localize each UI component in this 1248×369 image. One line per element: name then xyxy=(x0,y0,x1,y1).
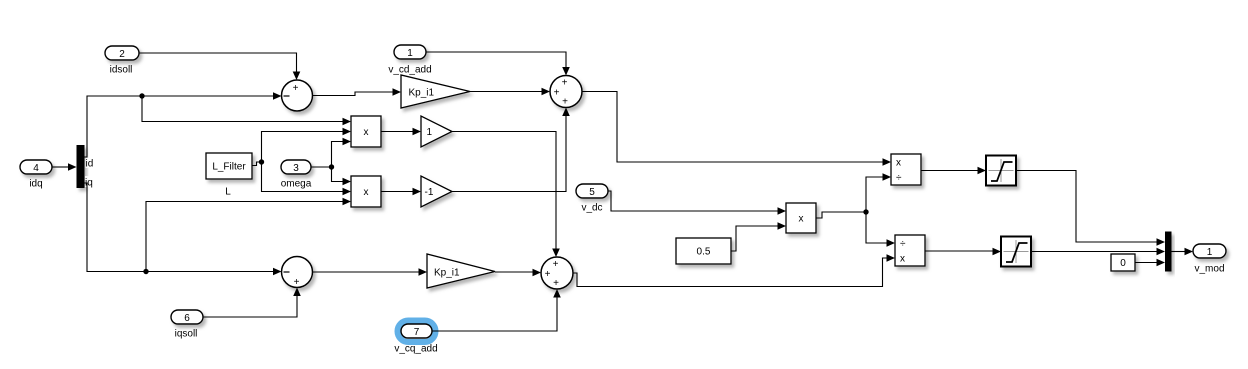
svg-text:omega: omega xyxy=(281,179,312,190)
wire port7 to S4 bottom xyxy=(432,289,561,331)
svg-text:L_Filter: L_Filter xyxy=(212,162,246,173)
svg-text:+: + xyxy=(545,269,551,280)
wire SAT1 to mux input1 xyxy=(1016,171,1165,246)
divide MD1 (x over divide) xyxy=(891,154,921,185)
wire MD2 to SAT2 xyxy=(925,248,1001,256)
svg-text:1: 1 xyxy=(427,127,433,138)
wire port4 to demux xyxy=(52,163,77,171)
svg-text:idsoll: idsoll xyxy=(110,65,133,76)
product X3 (v_dc*0.5) xyxy=(786,203,816,233)
product X2 (omega*L*iq) xyxy=(351,176,381,207)
junction X3 xyxy=(863,209,868,214)
svg-text:6: 6 xyxy=(184,313,190,324)
wire const 0 to mux input3 xyxy=(1135,259,1165,267)
wire omega branch down to X2 xyxy=(332,167,352,185)
wire port6 to S3 bottom xyxy=(203,288,301,318)
wire S1 to G1 xyxy=(313,88,402,96)
svg-text:v_dc: v_dc xyxy=(581,203,602,214)
wire id signal xyxy=(85,92,282,157)
wire omega branch up to X1 xyxy=(332,138,352,167)
svg-text:1: 1 xyxy=(407,48,413,59)
wire const 0.5 to X3 xyxy=(731,222,786,251)
wire L_Filter output xyxy=(252,162,262,166)
divide MD2 (divide over x) xyxy=(895,235,925,266)
svg-text:id: id xyxy=(86,159,94,170)
gain G4 Kp_i1 (q axis) xyxy=(427,254,495,288)
gain G2 value 1 xyxy=(421,116,452,147)
inport 6 iqsoll xyxy=(171,310,203,340)
saturation SAT1 xyxy=(986,156,1016,186)
svg-text:L: L xyxy=(225,187,231,198)
wire G4 to S4 left xyxy=(495,269,541,277)
constant L_Filter xyxy=(206,153,252,198)
svg-text:5: 5 xyxy=(589,187,595,198)
gain G1 Kp_i1 (d axis) xyxy=(401,75,470,108)
wire L branch down to X2 xyxy=(262,162,352,195)
svg-text:4: 4 xyxy=(33,163,39,174)
wire MD1 to SAT1 xyxy=(921,167,986,175)
sum S2 (d-axis adder) xyxy=(550,76,582,108)
svg-text:2: 2 xyxy=(119,49,125,60)
junction L xyxy=(259,159,264,164)
svg-text:0.5: 0.5 xyxy=(697,247,711,258)
gain G3 value -1 xyxy=(421,176,452,207)
wire iq branch to X2 xyxy=(146,198,351,272)
svg-text:-1: -1 xyxy=(425,187,434,198)
wire SAT2 to mux input2 xyxy=(1031,248,1165,256)
inport 4 idq xyxy=(20,160,52,190)
junction iq xyxy=(143,269,148,274)
inport 5 v_dc xyxy=(576,184,608,214)
wire id branch to X1 xyxy=(142,96,351,125)
wire G1 to S2 left xyxy=(470,88,550,96)
sum S1 (idsoll - id) xyxy=(282,80,313,111)
wire port1 to S2 top xyxy=(426,52,570,76)
svg-text:x: x xyxy=(364,187,369,198)
junction omega xyxy=(329,164,334,169)
svg-text:Kp_i1: Kp_i1 xyxy=(409,88,435,99)
svg-text:0: 0 xyxy=(1120,258,1126,269)
wire X1 to G2 xyxy=(381,128,421,136)
svg-text:v_cq_add: v_cq_add xyxy=(394,344,437,355)
svg-text:x: x xyxy=(799,214,804,225)
svg-text:+: + xyxy=(562,78,568,89)
constant 0 xyxy=(1111,254,1135,271)
svg-text:Kp_i1: Kp_i1 xyxy=(434,268,460,279)
inport 3 omega xyxy=(281,160,312,190)
svg-text:+: + xyxy=(562,96,568,107)
svg-text:idq: idq xyxy=(29,179,42,190)
sum S3 (iq error) xyxy=(282,257,313,289)
wire G3 to S2 bottom xyxy=(452,108,570,192)
sum S4 (q-axis adder) xyxy=(541,257,573,289)
saturation SAT2 xyxy=(1001,237,1031,267)
demux xyxy=(77,145,97,189)
wire S2 to MD1 input x xyxy=(582,92,891,166)
wire port5 to X3 xyxy=(608,191,786,215)
svg-text:x: x xyxy=(896,158,901,169)
svg-text:x: x xyxy=(900,254,905,265)
wire X2 to G3 xyxy=(381,188,421,196)
svg-text:x: x xyxy=(364,127,369,138)
svg-text:3: 3 xyxy=(293,163,299,174)
svg-text:iqsoll: iqsoll xyxy=(175,329,198,340)
wire X3 branch up to MD1 divide xyxy=(866,173,891,212)
junction id xyxy=(139,93,144,98)
svg-text:+: + xyxy=(553,259,559,270)
outport 1 v_mod xyxy=(1193,244,1226,275)
svg-text:÷: ÷ xyxy=(900,239,906,250)
svg-text:÷: ÷ xyxy=(896,173,902,184)
svg-text:+: + xyxy=(554,87,560,98)
wire L branch up to X1 xyxy=(262,128,352,162)
wire port2 to S1 top xyxy=(139,53,300,80)
product X1 (omega*L*id) xyxy=(351,116,381,147)
svg-text:+: + xyxy=(293,83,299,94)
mux xyxy=(1165,232,1172,272)
wire G2 to S4 top xyxy=(452,132,560,258)
wire S3 to G4 xyxy=(313,268,428,276)
svg-text:+: + xyxy=(553,278,559,289)
inport 2 idsoll xyxy=(105,46,139,76)
wire X3 branch down to MD2 divide xyxy=(866,212,895,247)
svg-text:1: 1 xyxy=(1207,247,1213,258)
svg-text:7: 7 xyxy=(414,327,420,338)
constant 0.5 xyxy=(676,238,731,264)
wire S4 to MD2 input x xyxy=(573,254,895,286)
inport 7 v_cq_add (selected, blue highlight) xyxy=(394,321,437,355)
wire X3 output xyxy=(816,212,866,218)
svg-text:v_mod: v_mod xyxy=(1194,264,1224,275)
wire omega output xyxy=(311,166,332,168)
inport 1 v_cd_add xyxy=(388,45,431,76)
svg-text:+: + xyxy=(294,277,300,288)
svg-text:v_cd_add: v_cd_add xyxy=(388,65,431,76)
wire iq signal xyxy=(85,183,282,275)
wire mux to outport v_mod xyxy=(1172,248,1194,256)
